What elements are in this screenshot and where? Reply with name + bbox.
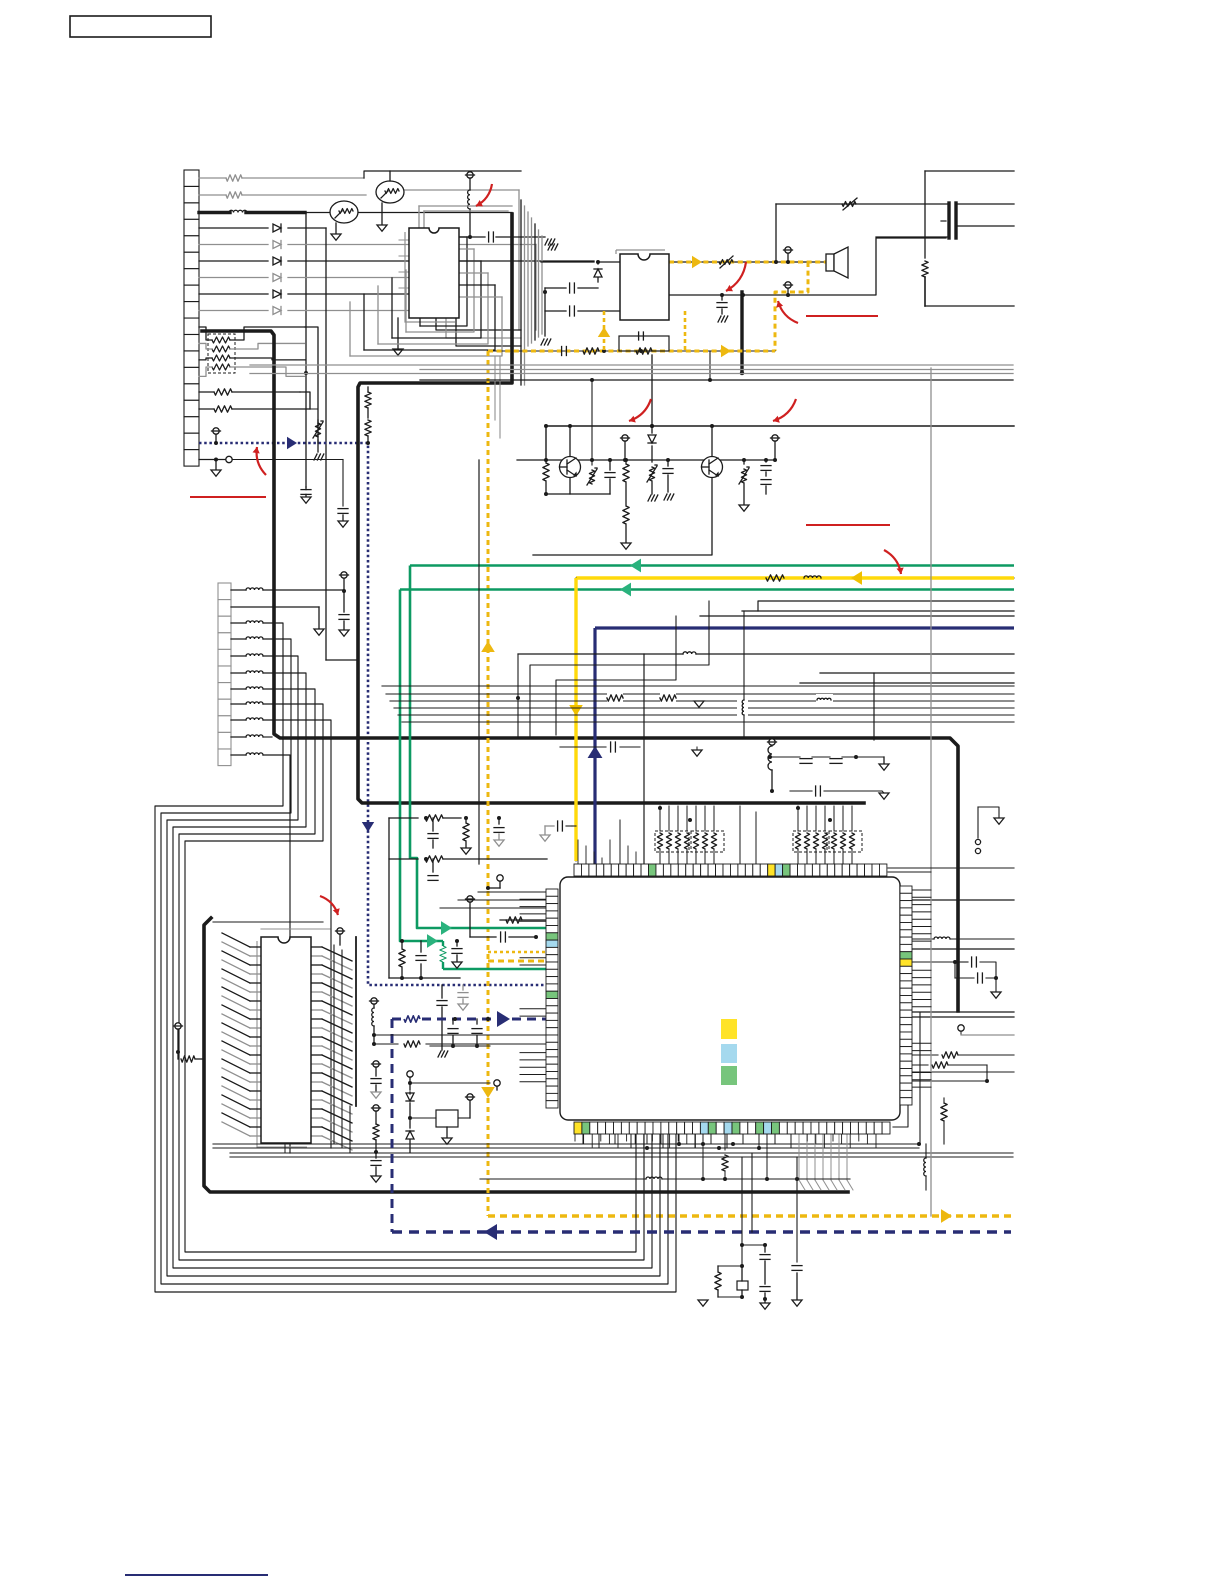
feed left3 — [440, 907, 546, 909]
red mark M1 — [190, 496, 266, 498]
vertical x931 — [930, 368, 932, 1216]
transistor Q1 — [560, 457, 581, 478]
navy wire NV1v — [593, 628, 596, 864]
yellow wire Y262 — [669, 261, 826, 264]
U3 bottom wires2 — [230, 1153, 1013, 1157]
IC U3 shadow — [257, 941, 307, 1147]
capacitor C9 — [761, 458, 771, 494]
vertical x350 — [349, 1106, 351, 1153]
resistor R12 — [178, 1052, 204, 1062]
ground 777 a — [548, 244, 558, 250]
U4 bottom gray fan — [799, 1134, 853, 1190]
navy dotted wire N1 — [199, 443, 547, 985]
bus rings U1 — [350, 237, 502, 356]
gray stub v1 — [495, 357, 500, 438]
navy mark M4 — [125, 1574, 268, 1576]
green arrow G2a — [620, 583, 631, 597]
U3 right spine — [355, 937, 357, 1106]
vertical x987 — [986, 1065, 988, 1081]
U3 bottom wires — [213, 1142, 921, 1148]
capacitor C13 — [416, 941, 426, 980]
terminal T5 — [621, 435, 630, 462]
yellow arrow Y1a — [851, 571, 862, 585]
U4 center green — [721, 1066, 737, 1085]
capacitor C15 — [470, 932, 538, 942]
yellow arrow Y351a — [721, 345, 731, 357]
resistor R21 — [715, 1266, 742, 1297]
wire row1 — [199, 171, 521, 178]
wire W654 — [516, 654, 1014, 738]
U4 bottom pins — [574, 1122, 890, 1134]
capacitor C1 — [301, 487, 311, 503]
wire W616 — [700, 615, 1014, 617]
U4 top pins — [574, 864, 887, 876]
vertical x767 — [766, 1134, 768, 1179]
wrap wire 0 — [155, 623, 676, 1292]
inductor L3 — [804, 576, 821, 578]
cn2 row11 — [263, 755, 290, 1153]
black bus4 — [420, 379, 1013, 381]
crystal body X1b — [737, 1266, 748, 1299]
inductor L7 — [372, 1008, 376, 1046]
transformer TF1 — [941, 203, 956, 238]
wire tf l2 — [876, 236, 947, 238]
capacitor C7 — [605, 458, 615, 494]
wire diode row 6 — [199, 310, 456, 312]
wire xtal v2 — [751, 1153, 753, 1232]
gray cap C16 — [458, 985, 468, 1010]
resistor R19 — [912, 1062, 987, 1068]
speaker SP1 — [826, 247, 848, 278]
diode D8 — [648, 426, 656, 462]
varistor RV1 — [313, 420, 324, 460]
resistor R16 — [399, 939, 405, 980]
U3 right pins — [311, 947, 352, 1150]
green wire G2 — [400, 588, 1014, 591]
inductor L6 — [737, 611, 748, 738]
wire row2b — [403, 190, 519, 330]
bus top gray — [419, 206, 512, 228]
title box — [70, 16, 211, 37]
wire diode row 3 — [199, 260, 594, 262]
gray bus2 — [420, 369, 1013, 371]
U4 right elbow — [893, 1103, 908, 1127]
ground xtal3 — [698, 1300, 708, 1306]
cn2 coil 8 — [231, 718, 263, 720]
inductor L9 — [912, 937, 1014, 939]
red mark M2 — [806, 524, 890, 526]
U4 right stubs — [912, 890, 931, 1087]
green arrow G1b — [441, 921, 452, 935]
resistor R13 — [389, 815, 461, 821]
wrap wire 5 — [185, 704, 636, 1252]
resistor R6 — [922, 261, 928, 306]
capacitor C17 — [437, 985, 447, 1046]
column x376b — [371, 1105, 381, 1182]
capacitor C11 — [494, 816, 504, 846]
wire thick T3 — [740, 292, 744, 375]
diode D5 — [273, 290, 281, 298]
diode D4 — [273, 274, 281, 282]
wire y978 — [389, 977, 460, 979]
wire u2 out2 — [669, 293, 742, 297]
wire diode row 4 — [199, 277, 436, 279]
navy arrow N1b — [362, 822, 374, 832]
navy arrow N1a — [287, 437, 297, 449]
capacitor C2 — [459, 232, 555, 245]
terminal T11 — [958, 1025, 1014, 1035]
navy arrow NDa — [497, 1011, 510, 1027]
yellow U right — [684, 311, 687, 351]
gray bus1 — [250, 364, 1013, 366]
red arrow A4 — [629, 399, 651, 423]
capacitor C5 — [717, 295, 728, 322]
yellow branch Yb — [488, 960, 547, 963]
dashed box RN1 — [208, 334, 235, 373]
vertical x703 — [702, 1134, 704, 1179]
node y351 — [602, 349, 643, 353]
terminal T7 — [466, 896, 475, 937]
vertical x334 — [333, 945, 335, 1144]
trimmer TR1 — [330, 201, 358, 240]
capacitor C6 — [562, 347, 567, 356]
U4 right pins — [900, 886, 912, 1105]
gray bus3 — [250, 373, 1013, 375]
wire diode row 1 — [199, 227, 326, 229]
wire top right — [888, 868, 1014, 872]
trimmer TR2 — [376, 181, 404, 231]
capacitor C23 — [540, 821, 576, 841]
wire u2 out1 — [669, 261, 826, 263]
resistor array 1 — [793, 806, 862, 864]
circle REG2 — [494, 1080, 500, 1090]
capacitor C4 — [545, 306, 620, 316]
node W426a — [544, 424, 654, 428]
wire thick T2 — [202, 331, 958, 1011]
wire tf top — [925, 170, 1014, 172]
capacitor C20 — [560, 742, 702, 756]
wire R y949 — [912, 948, 1014, 950]
terminal U3t — [336, 928, 345, 945]
green wire G2v — [400, 590, 443, 942]
diode D6 — [273, 307, 281, 315]
ground 777 b — [541, 339, 551, 345]
yellow U left — [603, 311, 606, 351]
U4 bottom stubs — [575, 1134, 876, 1147]
connector CN1 — [184, 170, 199, 466]
green wire G1 — [410, 564, 1014, 567]
yellow vertical Yv — [487, 351, 490, 1216]
resistor R17 — [500, 917, 547, 923]
navy resistor NDr — [403, 1013, 421, 1025]
cn2 row10 — [263, 736, 272, 738]
diode D1 — [273, 224, 281, 232]
capacitor C19 — [472, 1019, 482, 1048]
U4 bottom feeds — [583, 1134, 791, 1150]
bus mid 1 — [386, 693, 1014, 695]
wire tf v — [924, 171, 926, 258]
resistor R18 — [912, 1052, 1014, 1058]
wire q1c — [568, 424, 572, 456]
inductor L4 — [683, 652, 696, 654]
terminal T2 — [466, 172, 475, 190]
wire y1046 — [430, 1046, 490, 1057]
yellow wire Yspk — [775, 262, 808, 351]
resistor chain x368 — [365, 387, 371, 445]
regulator U5 — [410, 1094, 475, 1127]
wire W426 — [546, 426, 1014, 460]
U4 left stubs — [520, 892, 546, 1082]
yellow arrow Yv1 — [481, 641, 495, 652]
wire q2e — [533, 478, 712, 555]
resistor R8 — [621, 458, 631, 549]
capacitor C24 — [912, 957, 1001, 998]
bus mid 4 — [398, 714, 1014, 716]
cn2 coil 9 — [231, 735, 263, 737]
inductor L1 — [229, 210, 247, 212]
ground xtal1 — [760, 1299, 770, 1309]
wire xtal v1 — [740, 1157, 744, 1268]
green resistor G2r — [440, 941, 446, 969]
yellow arrow Y1b — [569, 705, 583, 716]
wire W601 — [758, 601, 1014, 611]
U1 left stubs — [399, 240, 409, 288]
wrap wire 3 — [173, 673, 652, 1268]
wire thick W1 — [199, 211, 305, 214]
vertical x920 — [919, 1012, 921, 1144]
cn2 row9 — [263, 720, 331, 1148]
terminal T9 — [370, 998, 379, 1008]
bus mid 2 — [390, 700, 1014, 702]
wire thick T4 — [204, 918, 848, 1192]
red arrow A8 — [253, 447, 267, 475]
resistor R3 — [199, 389, 310, 409]
bus vertical gray — [521, 200, 542, 385]
cn2 coil 10 — [231, 753, 263, 755]
IC U1 — [409, 228, 459, 318]
U4 center yellow — [721, 1019, 737, 1039]
resistor R5 — [583, 348, 599, 354]
wire y1035 — [374, 1034, 547, 1036]
cn2 coil 2 — [231, 621, 263, 623]
crystal X1 — [742, 1243, 770, 1301]
wire y1179 — [480, 1177, 850, 1181]
capacitor C22 — [790, 786, 889, 799]
resistor R20 — [941, 1098, 947, 1144]
yellow arrow Y262a — [692, 256, 702, 268]
inductor L5 — [816, 694, 833, 707]
U3 left pins — [222, 933, 261, 1136]
feed top2 — [740, 806, 756, 864]
green wire G1v — [410, 566, 547, 929]
cn2 coil 0 — [231, 588, 263, 590]
red arrow A2 — [726, 262, 746, 291]
inductor L2 — [468, 190, 470, 209]
keypad wires — [199, 327, 305, 376]
transistor Q2 — [702, 457, 723, 478]
wire W1b — [305, 212, 512, 214]
fuse F1 — [842, 198, 857, 210]
IC U3 — [261, 937, 311, 1143]
terminal T6 — [771, 435, 780, 462]
red arrow A1 — [476, 184, 492, 206]
diode D7 — [594, 262, 602, 282]
cn2 row2 — [231, 607, 324, 635]
terminal U3l — [174, 1023, 183, 1054]
resistor array 0 — [655, 806, 724, 864]
resistor R10 — [607, 692, 623, 704]
capacitor C18 — [448, 1019, 458, 1048]
red arrow A7 — [320, 896, 340, 915]
bus mid 5 — [402, 721, 1014, 723]
capacitor C3 — [545, 283, 598, 293]
green arrow G2b — [427, 934, 438, 948]
wire reg — [408, 1081, 490, 1085]
red arrow A5 — [773, 399, 796, 423]
column x376a — [371, 1061, 381, 1098]
wire y1044 — [374, 1041, 547, 1047]
elbow e2 — [556, 616, 676, 735]
red mark M3 — [806, 315, 878, 317]
red arrow A6 — [884, 550, 904, 574]
yellow arrow YUl — [598, 327, 610, 337]
wire R y1012 — [912, 1012, 1014, 1017]
cn2 coil 6 — [231, 687, 263, 689]
green arrow G1a — [630, 559, 641, 573]
U4 top stubs — [578, 840, 644, 864]
wire row2 — [199, 194, 366, 196]
wire d1 drop — [326, 228, 356, 660]
IC U4 body — [560, 877, 900, 1120]
navy dashed ND1 — [392, 1019, 547, 1232]
varistor RV4 — [587, 378, 598, 485]
node Y262 — [774, 260, 778, 264]
wire tf r1 — [958, 203, 1014, 205]
yellow branch Ya — [488, 951, 547, 953]
wire Wbase — [517, 459, 776, 461]
yellow bottom YB — [488, 1214, 1011, 1217]
capacitor C12 — [428, 859, 438, 880]
wrap wire 1 — [161, 639, 668, 1284]
diode D3 — [273, 257, 281, 265]
cn2 coil 5 — [231, 671, 263, 673]
cn2 row1 — [263, 572, 349, 636]
wire tf l1 — [776, 204, 947, 262]
capacitor C25 — [792, 1157, 802, 1306]
elbow e1 — [530, 601, 709, 738]
row18 wire — [199, 456, 348, 527]
yellow wire Y1 — [576, 577, 1014, 579]
resistor R9 — [766, 575, 784, 581]
varistor RV5 — [739, 458, 750, 511]
diode D9 — [406, 1092, 414, 1120]
yellow wire Y1v — [575, 578, 577, 861]
wire q2c — [710, 424, 714, 456]
resistor R22 — [722, 1134, 728, 1179]
wire tf r2 — [958, 225, 1014, 227]
wrap wire 4 — [179, 689, 644, 1260]
wire x643 — [650, 351, 712, 428]
wire d5 drop — [446, 294, 521, 338]
feed left2 — [458, 899, 546, 901]
IC U2 shadow — [616, 250, 665, 254]
capacitor C21 — [768, 755, 889, 770]
wire spk return — [741, 238, 946, 297]
resistor R11 — [660, 692, 676, 704]
keypad bus — [305, 327, 318, 426]
diode D10 — [406, 1118, 414, 1152]
U3 top fan — [213, 922, 330, 929]
U4 left pins — [546, 889, 558, 1108]
navy arrow NBa — [484, 1224, 497, 1240]
terminal T1 — [212, 428, 221, 445]
ground U1 — [393, 318, 403, 355]
switch SW1 — [975, 807, 1004, 854]
capacitor C8 — [663, 458, 674, 500]
resistor R1 — [226, 175, 242, 181]
wire L2 down — [468, 209, 472, 239]
bus mid 3 — [394, 707, 1014, 709]
wire d4 drop — [436, 278, 521, 331]
resistor R2 — [226, 192, 242, 198]
capacitor C14 — [452, 939, 462, 968]
navy wire NV1 — [595, 626, 1014, 629]
wire thick T1 — [358, 214, 864, 803]
capacitor C10 — [428, 818, 438, 848]
wire W611 — [742, 610, 1014, 612]
ground U5 — [442, 1127, 452, 1144]
resistor R15 — [389, 856, 547, 862]
terminal T10 — [768, 739, 777, 793]
feed top1 — [619, 820, 621, 864]
RC box — [619, 332, 669, 354]
wire tf bot — [925, 305, 1014, 307]
wire q1 — [546, 478, 610, 494]
feed left1 — [478, 891, 546, 893]
cn2 coil 3 — [231, 637, 263, 639]
wire diode row 5 — [199, 293, 446, 295]
bus mid 0 — [382, 685, 1014, 687]
connector CN2 — [218, 583, 231, 766]
red arrow A3 — [776, 301, 798, 323]
wire diode row 2 — [199, 244, 536, 246]
terminal T4 — [784, 282, 793, 297]
varistor RV2 — [719, 256, 733, 268]
wire W683 — [800, 682, 1014, 684]
wire W673 — [820, 673, 1014, 740]
array dots — [658, 806, 832, 822]
ground mid — [694, 701, 704, 707]
green wire G2h — [443, 968, 547, 971]
diode D2 — [273, 241, 281, 249]
yellow arrow Yv2 — [481, 1087, 495, 1098]
navy bottom NB — [392, 1230, 1011, 1233]
circle REG1 — [407, 1071, 413, 1090]
wire x389 — [388, 818, 390, 978]
yellow arrow YBa — [941, 1209, 952, 1223]
terminal T8 — [486, 875, 503, 890]
vertical x342 — [285, 950, 342, 1153]
resistor R14 — [461, 816, 471, 854]
wire R y1072 — [912, 1072, 1014, 1083]
node W1v — [304, 213, 308, 488]
cn2 coil 4 — [231, 654, 263, 656]
varistor RV3 — [647, 465, 658, 501]
cn2 coil 7 — [231, 702, 263, 704]
wire tr2 top — [389, 171, 391, 181]
wire d6 drop — [456, 311, 521, 347]
IC U1 shadow — [405, 232, 455, 322]
